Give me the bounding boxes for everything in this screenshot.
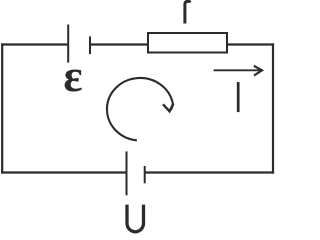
wire top-right segment [227, 43, 274, 45]
wire top-left segment [1, 43, 68, 45]
wire bottom-right segment [145, 171, 274, 173]
battery E short plate [89, 36, 91, 54]
wire left vertical [1, 43, 3, 173]
wire top-middle segment [90, 43, 148, 45]
wire bottom-left segment [1, 171, 126, 173]
battery E long plate [67, 25, 69, 63]
label U [127, 205, 144, 232]
loop direction arrow (clockwise arc) [107, 78, 173, 140]
current arrow [214, 66, 262, 76]
label I [237, 82, 240, 112]
battery U short plate [144, 166, 146, 183]
svg-text:ε: ε [63, 51, 82, 101]
wire right vertical [272, 43, 274, 173]
label r [185, 0, 190, 23]
battery U long plate [126, 151, 128, 195]
resistor r box [148, 33, 227, 53]
